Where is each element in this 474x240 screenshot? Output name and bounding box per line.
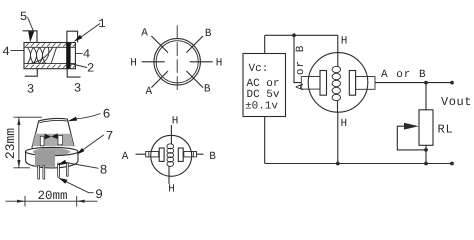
leader 4 left bbox=[11, 50, 25, 52]
electrode bar (part 2) bbox=[66, 43, 70, 69]
leader 9 bbox=[66, 182, 93, 193]
solder wedge (part 5 pointer) bbox=[28, 31, 34, 42]
top-left clamp bracket bbox=[23, 31, 37, 43]
svg-text:1: 1 bbox=[98, 17, 106, 31]
pin H right bbox=[190, 61, 213, 63]
heater coil stem top bbox=[337, 53, 339, 67]
arrowhead 8 bbox=[57, 160, 67, 166]
svg-text:2: 2 bbox=[87, 61, 95, 75]
svg-text:B: B bbox=[209, 151, 216, 163]
wire: sensor bottom H stem to rail bbox=[337, 112, 339, 163]
leader 7 bbox=[83, 135, 104, 150]
svg-text:3: 3 bbox=[74, 82, 82, 96]
terminal sleeve left bbox=[301, 77, 320, 90]
wiper arrow bbox=[404, 123, 419, 130]
svg-text:9: 9 bbox=[95, 187, 103, 202]
wire: Vc top riser bbox=[264, 35, 266, 53]
arrowhead 7 bbox=[77, 148, 85, 155]
electrode plate right bbox=[178, 148, 183, 161]
electrode plate left bbox=[159, 148, 164, 161]
pin 3 bbox=[58, 163, 60, 177]
svg-text:DC 5v: DC 5v bbox=[247, 89, 280, 101]
interior gray band (sensing element platform) bbox=[32, 134, 74, 146]
svg-text:H: H bbox=[341, 36, 348, 48]
outer circle bbox=[154, 39, 200, 85]
terminal dot rail end bbox=[450, 162, 454, 166]
wire: A-or-B left drop bbox=[294, 35, 301, 82]
wire: junction down to RL bbox=[425, 83, 427, 110]
junction dot right bbox=[424, 81, 428, 85]
sensing mesh bbox=[28, 48, 57, 64]
inner circle bbox=[156, 41, 198, 83]
junction dot rail-RL bbox=[424, 162, 428, 166]
bottom-right elbow leader (3) bbox=[67, 69, 80, 77]
wire A left bbox=[136, 153, 146, 155]
wiper wire bbox=[397, 126, 426, 150]
wire: right terminal to Vout bbox=[375, 82, 452, 84]
svg-text:6: 6 bbox=[103, 107, 111, 122]
svg-text:H: H bbox=[130, 57, 137, 69]
terminal sleeve left bbox=[146, 152, 159, 157]
svg-text:8: 8 bbox=[100, 162, 108, 177]
23mm dimension line bbox=[14, 117, 43, 168]
electrode plate right bbox=[349, 71, 355, 96]
dome rim inner line bbox=[39, 120, 67, 122]
electrode post right bbox=[58, 135, 63, 144]
wire B right bbox=[197, 153, 204, 155]
pin A top-left bbox=[151, 36, 168, 53]
base top gray ring bbox=[33, 148, 70, 156]
arrowhead 9 bbox=[58, 178, 67, 184]
pin B bottom-right bbox=[186, 71, 203, 88]
svg-text:A: A bbox=[141, 27, 148, 39]
svg-text:Vc:: Vc: bbox=[249, 63, 269, 75]
pin 1 bbox=[38, 166, 40, 180]
heater coil stem bottom bbox=[337, 101, 339, 113]
pin 4 bbox=[66, 163, 68, 177]
sensing element bowtie bbox=[45, 134, 52, 140]
wire: top rail bbox=[265, 34, 338, 36]
top-right clamp bracket bbox=[67, 31, 78, 42]
electrode plate left bbox=[320, 71, 327, 96]
top hatched band bbox=[24, 43, 75, 47]
power source box Vc bbox=[243, 54, 286, 117]
terminal dot Vout bbox=[450, 81, 454, 85]
svg-text:B: B bbox=[204, 84, 211, 96]
svg-text:23mm: 23mm bbox=[3, 128, 18, 159]
svg-text:20mm: 20mm bbox=[37, 189, 67, 203]
sleeve divider left bbox=[148, 152, 150, 157]
vertical centerline bbox=[176, 25, 178, 93]
sleeve divider right bbox=[192, 152, 194, 157]
wire: sensor top H stem bbox=[337, 35, 339, 52]
terminal sleeve right bbox=[184, 152, 197, 157]
pin H left bbox=[142, 61, 165, 63]
leader 4 right bbox=[75, 52, 82, 54]
svg-text:B: B bbox=[205, 28, 212, 40]
junction dot rail-H bbox=[336, 162, 340, 166]
svg-text:RL: RL bbox=[438, 123, 454, 137]
electrode post left bbox=[40, 136, 44, 146]
svg-text:Vout: Vout bbox=[441, 95, 472, 109]
heater wire top stem bbox=[170, 125, 172, 144]
pin 2 bbox=[43, 166, 45, 180]
wire: RL bottom to rail bbox=[425, 145, 427, 163]
heater coil bbox=[332, 66, 340, 100]
svg-text:A: A bbox=[145, 86, 152, 98]
dome (anti-explosion mesh cap, part 6) bbox=[32, 118, 74, 147]
leader 6 bbox=[77, 114, 101, 119]
heater coil bbox=[167, 144, 174, 167]
pin A bottom-left bbox=[151, 71, 168, 88]
leader 5 bbox=[28, 17, 34, 31]
center gray blob (resin base) bbox=[35, 151, 55, 167]
arrowhead 6 bbox=[68, 117, 78, 121]
junction dot RL bottom bbox=[424, 148, 428, 152]
svg-text:3: 3 bbox=[27, 83, 35, 97]
sensor shell circle bbox=[151, 135, 192, 176]
leader 8 bbox=[66, 163, 99, 169]
heater wire bottom stem bbox=[168, 166, 170, 184]
svg-text:H: H bbox=[216, 57, 223, 69]
svg-text:4: 4 bbox=[2, 45, 10, 59]
svg-text:A: A bbox=[122, 151, 129, 163]
svg-text:7: 7 bbox=[106, 128, 114, 143]
terminal sleeve right bbox=[356, 77, 375, 90]
base bottom arc bbox=[26, 161, 78, 168]
sensor body outline bbox=[24, 43, 75, 69]
pin B top-right bbox=[186, 36, 203, 53]
bottom hatched band bbox=[24, 64, 75, 68]
svg-text:4: 4 bbox=[83, 48, 91, 62]
svg-text:5: 5 bbox=[20, 10, 28, 24]
resistor RL body bbox=[419, 110, 433, 146]
svg-text:H: H bbox=[340, 118, 347, 130]
wire: bottom rail bbox=[265, 163, 452, 165]
svg-text:H: H bbox=[168, 184, 175, 196]
wire: Vc bottom riser bbox=[264, 117, 266, 164]
leader 1 bbox=[81, 24, 100, 38]
20mm dimension line bbox=[6, 196, 98, 207]
svg-text:H: H bbox=[172, 116, 179, 128]
svg-text:A or B: A or B bbox=[381, 69, 427, 81]
bottom-left elbow leader (3) bbox=[25, 69, 38, 77]
leader 2 bbox=[70, 64, 87, 68]
base cylinder top ellipse bbox=[26, 147, 78, 155]
svg-text:±0.1v: ±0.1v bbox=[245, 101, 278, 113]
arrowhead 1 bbox=[74, 35, 83, 42]
junction dot top bbox=[292, 33, 296, 37]
sensor shell circle bbox=[308, 53, 368, 113]
base side walls bbox=[26, 152, 78, 161]
